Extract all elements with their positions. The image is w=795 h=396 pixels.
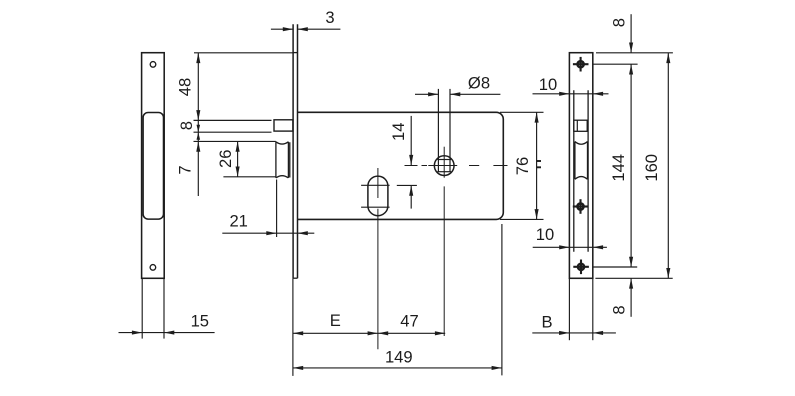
dimension line 21 — [222, 232, 314, 234]
faceplate side top edge — [293, 52, 297, 54]
faceplate side bottom edge — [293, 277, 297, 279]
spindle vertical centerline — [443, 147, 445, 178]
lock case body outline — [298, 112, 504, 219]
extension line E left / 149 left — [292, 278, 294, 376]
arrow 149 right — [492, 366, 502, 370]
dimension line 15 — [119, 332, 215, 334]
dimension line E and 47 — [293, 332, 445, 334]
extension line top (y=52.8) — [194, 52, 293, 54]
dimension line B left tail — [532, 332, 569, 334]
spindle square right side / dia-8 extension — [449, 89, 451, 172]
faceplate square hole — [574, 120, 587, 131]
spindle square left side / dia-8 extension — [437, 89, 439, 172]
extension line B left — [568, 278, 570, 340]
dimension line 8 top — [630, 14, 632, 53]
arrow 10 top right — [593, 92, 603, 96]
arrow 15 right — [164, 331, 174, 335]
faceplate side view right line — [297, 24, 299, 278]
arrow 160 bottom — [666, 268, 670, 278]
arrow 21 right — [298, 231, 308, 235]
arrow 48 top — [196, 53, 200, 63]
svg-text:76: 76 — [513, 157, 532, 175]
cylinder centerline upper — [377, 168, 379, 198]
arrow 3 right — [298, 27, 308, 31]
svg-text:8: 8 — [610, 18, 629, 27]
extension line faceplate top — [596, 52, 673, 54]
extension line left plate right edge — [163, 278, 165, 338]
dimension line 10 top — [533, 93, 609, 95]
svg-text:47: 47 — [400, 312, 418, 331]
svg-text:E: E — [330, 311, 341, 330]
left plate bottom hole — [150, 265, 156, 271]
faceplate top screw hole — [578, 61, 584, 67]
arrow dia8 left — [428, 92, 438, 96]
svg-text:160: 160 — [642, 154, 661, 182]
dimension line 14 upper — [410, 116, 412, 165]
arrow 149 left — [293, 366, 303, 370]
faceplate bottom screw hole — [578, 264, 584, 270]
arrow E left — [293, 331, 303, 335]
dimension line 3 left tail — [271, 28, 293, 30]
extension line 144 bottom — [593, 266, 637, 268]
dimension line dia8 right tail — [450, 93, 500, 95]
left plate top hole — [150, 62, 156, 68]
dimension line 26 — [237, 141, 239, 176]
centerline break marks on 76 dim — [536, 160, 541, 162]
extension line left plate left edge — [141, 278, 143, 338]
arrow B right — [593, 331, 603, 335]
cylinder hole lower line — [361, 206, 390, 208]
dimension line B right tail — [593, 332, 616, 334]
svg-text:10: 10 — [536, 225, 554, 244]
svg-text:8: 8 — [609, 305, 628, 314]
extension line 76 top — [500, 111, 544, 113]
extension line faceplate bottom — [595, 277, 672, 279]
svg-text:3: 3 — [325, 8, 334, 27]
svg-text:8: 8 — [177, 121, 196, 130]
extension line latch face — [276, 180, 278, 238]
left plate slot — [143, 113, 163, 220]
arrow 47 left — [378, 331, 388, 335]
arrow 7 bottom — [196, 141, 200, 151]
cylinder centerline lower extension — [377, 209, 379, 349]
arrow 3 left — [283, 27, 293, 31]
arrow 8 top — [629, 43, 633, 53]
svg-text:10: 10 — [539, 75, 557, 94]
dimension line 3 right tail — [298, 28, 341, 30]
follower shaft bottom line — [194, 131, 272, 133]
arrow 10 bottom right — [593, 245, 603, 249]
faceplate square hole inner line — [576, 120, 578, 131]
latch top extension line — [194, 140, 276, 142]
dimension line 14 lower tail — [410, 185, 412, 208]
svg-text:14: 14 — [389, 123, 408, 141]
arrow 15 left — [132, 331, 142, 335]
spindle square top side — [437, 159, 451, 161]
arrow B left — [559, 331, 569, 335]
faceplate side view left line — [292, 24, 294, 278]
svg-text:7: 7 — [176, 165, 195, 174]
latch bolt side view — [276, 142, 290, 178]
arrow 14 bottom — [409, 185, 413, 195]
svg-text:21: 21 — [229, 212, 247, 231]
dimension line 160 — [667, 53, 669, 278]
extension line 76 bottom — [500, 218, 544, 220]
dimension line dia8 left tail — [415, 93, 438, 95]
dimension line 149 — [293, 367, 502, 369]
spindle hole circle — [434, 156, 454, 176]
dimension line 76 — [536, 112, 538, 219]
arrow E right — [368, 331, 378, 335]
dimension line 8 and 7 — [197, 120, 199, 196]
faceplate channel left edge — [573, 90, 575, 252]
arrow 48 bottom — [196, 110, 200, 120]
arrow 8 bottom — [197, 132, 201, 140]
follower shaft rectangle — [274, 120, 293, 131]
arrow dia8 right — [450, 92, 460, 96]
faceplate channel right edge — [587, 90, 589, 252]
arrow 47 right — [435, 331, 445, 335]
arrow 10 top left — [559, 92, 569, 96]
arrow 144 bottom — [629, 257, 633, 267]
arrow 21 left — [266, 231, 276, 235]
cylinder hole oval — [368, 176, 388, 216]
arrow 14 top — [409, 155, 413, 165]
dimension line 10 bottom — [533, 246, 607, 248]
dimension line 8 bottom — [630, 278, 632, 317]
arrow 76 bottom — [535, 209, 539, 219]
arrow 26 bottom — [236, 167, 240, 177]
arrow 10 bottom left — [559, 245, 569, 249]
extension line B right — [592, 278, 594, 340]
dimension line 144 — [630, 64, 632, 267]
latch bottom extension line — [223, 176, 275, 178]
arrow 7 top — [197, 125, 201, 133]
svg-text:149: 149 — [385, 347, 413, 366]
svg-text:26: 26 — [216, 150, 235, 168]
arrow 8 bottom — [629, 278, 633, 288]
arrow 160 top — [666, 53, 670, 63]
dimension line 48 — [197, 53, 199, 121]
arrow 76 top — [535, 112, 539, 122]
spindle horizontal centerline dashes — [405, 165, 418, 167]
svg-text:48: 48 — [176, 78, 195, 96]
arrow 144 top — [629, 64, 633, 74]
cylinder hole upper line — [361, 184, 390, 186]
extension line 14 bottom — [397, 184, 417, 186]
spindle centerline lower extension — [443, 186, 445, 336]
follower shaft top line — [194, 119, 272, 121]
svg-text:Ø8: Ø8 — [468, 74, 490, 93]
extension line 149 right — [501, 224, 503, 375]
svg-text:144: 144 — [609, 154, 628, 182]
svg-text:B: B — [541, 313, 552, 332]
left cover plate outline — [142, 53, 165, 279]
svg-text:15: 15 — [191, 311, 209, 330]
extension line 144 top — [593, 63, 638, 65]
faceplate middle screw hole — [577, 203, 583, 209]
faceplate front view outline — [569, 53, 592, 279]
arrow 26 top — [236, 141, 240, 151]
spindle square bottom side — [437, 171, 451, 173]
faceplate latch opening — [575, 142, 588, 180]
